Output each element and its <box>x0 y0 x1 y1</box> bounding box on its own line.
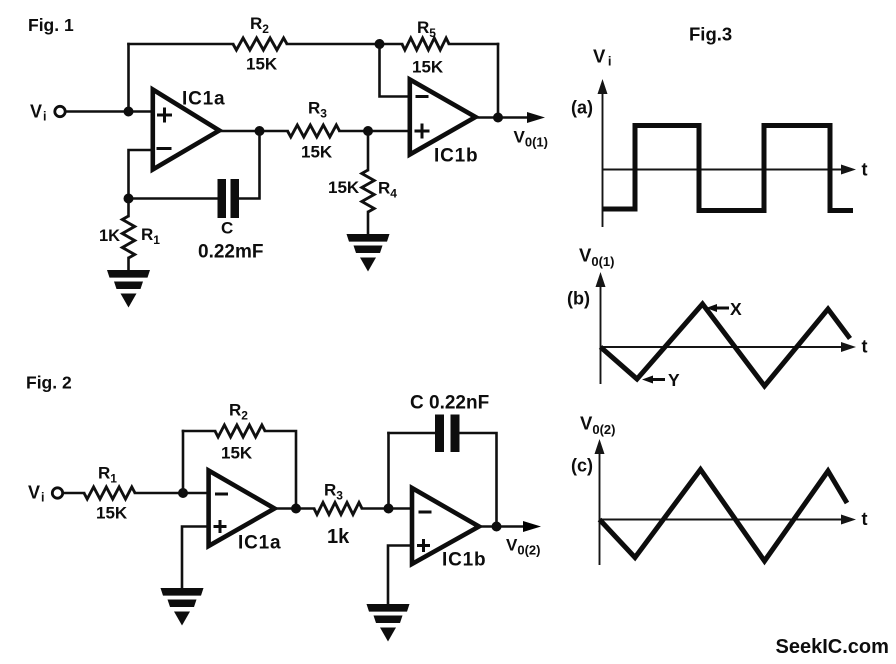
minus mark IC1b fig2 <box>419 511 432 514</box>
op-amp IC1a fig1 <box>153 90 220 170</box>
wire capacitor to output node fig2 <box>460 433 497 527</box>
wire R3 to IC1b inverting input fig2 <box>362 507 412 510</box>
svg-text:Y: Y <box>668 370 680 390</box>
node D junction <box>363 126 373 136</box>
svg-text:R3: R3 <box>324 481 343 503</box>
wire node A up to top rail <box>127 44 130 112</box>
plus mark IC1a fig2 <box>214 520 227 533</box>
wire corner down to output node fig1 <box>497 44 500 118</box>
wire R1 to ground <box>127 258 130 271</box>
ground below R4 <box>347 234 390 272</box>
wire IC1a output to R3 <box>218 130 288 133</box>
graph b axis vertical <box>600 285 602 384</box>
svg-text:R1: R1 <box>98 464 117 486</box>
wire node E to capacitor C <box>129 197 218 200</box>
wire rail to R2 fig2 <box>183 430 215 433</box>
minus mark IC1a fig1 <box>157 147 172 150</box>
node F junction fig2 <box>178 488 188 498</box>
svg-text:V0(2): V0(2) <box>580 413 615 438</box>
svg-text:Vi: Vi <box>593 46 611 69</box>
svg-text:15K: 15K <box>328 178 360 197</box>
wire IC1b noninverting input to ground fig2 <box>388 546 412 605</box>
wire R2 to corner down to output node fig2 <box>265 431 296 509</box>
svg-text:R5: R5 <box>417 18 436 40</box>
resistor R1 fig2 <box>84 487 135 499</box>
svg-text:IC1a: IC1a <box>238 533 281 554</box>
node E junction <box>124 194 134 204</box>
waveform triangle V0(1) <box>601 304 851 386</box>
node G junction IC1a output fig2 <box>291 504 301 514</box>
wire R4 to ground <box>367 212 370 235</box>
node output junction fig2 <box>492 522 502 532</box>
node B junction <box>375 39 385 49</box>
resistor R3 fig1 <box>288 125 340 137</box>
plus mark IC1a fig1 <box>157 108 172 123</box>
wire top rail to R2 <box>129 43 234 46</box>
svg-text:Vi: Vi <box>30 102 47 124</box>
ground below IC1b fig2 <box>367 604 410 642</box>
svg-text:Fig. 2: Fig. 2 <box>26 373 72 393</box>
node Vi input terminal fig2 <box>52 488 62 498</box>
arrow output V0(2) <box>523 521 541 532</box>
minus mark IC1a fig2 <box>215 493 228 496</box>
wire R1 to IC1a inverting input fig2 <box>135 492 209 495</box>
resistor R3 fig2 <box>314 503 362 515</box>
svg-text:t: t <box>862 509 868 529</box>
resistor R5 <box>402 38 449 50</box>
graph c axis vertical <box>599 452 601 565</box>
wire node F up to R2 rail fig2 <box>182 431 185 493</box>
node output junction fig1 <box>493 113 503 123</box>
svg-text:15K: 15K <box>246 55 278 74</box>
resistor R4 vertical <box>362 170 374 212</box>
wire IC1b output to arrow fig2 <box>479 525 524 528</box>
graph a axis vertical <box>602 92 604 227</box>
svg-text:R4: R4 <box>378 179 397 201</box>
capacitor C fig1 <box>218 179 227 218</box>
node A junction <box>124 107 134 117</box>
svg-text:Fig. 1: Fig. 1 <box>28 15 74 35</box>
svg-text:V0(1): V0(1) <box>579 245 614 270</box>
wire Vi to R1 fig2 <box>63 492 84 495</box>
capacitor C 0.22nF fig2 <box>435 415 444 453</box>
svg-text:t: t <box>862 337 868 357</box>
svg-text:Vi: Vi <box>28 483 45 505</box>
svg-text:V0(2): V0(2) <box>506 536 540 558</box>
svg-text:SeekIC.com: SeekIC.com <box>776 636 889 658</box>
wire IC1a noninverting input to ground fig2 <box>182 527 209 589</box>
wire node D down to R4 <box>367 131 370 170</box>
wire R5 to corner <box>449 43 498 46</box>
arrow Y pointer <box>650 378 665 381</box>
ground below R1 <box>107 270 150 308</box>
wire node E down to R1 <box>127 199 130 217</box>
svg-text:IC1a: IC1a <box>182 89 225 110</box>
node H junction fig2 <box>384 504 394 514</box>
minus mark IC1b fig1 <box>416 95 429 98</box>
svg-text:15K: 15K <box>412 58 444 77</box>
op-amp IC1b fig2 <box>412 488 479 564</box>
svg-text:R1: R1 <box>141 225 160 247</box>
node C junction IC1a output <box>255 126 265 136</box>
svg-text:IC1b: IC1b <box>434 146 478 167</box>
svg-text:R2: R2 <box>229 401 248 423</box>
wire IC1a inverting input loop to node E <box>129 150 153 199</box>
svg-text:t: t <box>862 160 868 180</box>
svg-text:0.22mF: 0.22mF <box>198 242 263 263</box>
resistor R2 fig1 <box>233 38 287 50</box>
svg-text:Fig.3: Fig.3 <box>689 24 732 45</box>
svg-text:(c): (c) <box>571 456 593 476</box>
graph c axis horizontal <box>600 519 846 521</box>
svg-text:(b): (b) <box>567 289 590 309</box>
op-amp IC1b fig1 <box>410 80 476 155</box>
wire R3 to IC1b noninverting input <box>340 130 410 133</box>
svg-text:1K: 1K <box>99 227 120 245</box>
svg-text:15K: 15K <box>96 504 128 523</box>
resistor R2 fig2 <box>215 425 265 437</box>
svg-text:1k: 1k <box>327 526 350 548</box>
arrow output V0(1) <box>527 112 545 123</box>
graph a axis horizontal <box>603 169 846 171</box>
wire rail to capacitor fig2 <box>389 432 436 435</box>
svg-text:R3: R3 <box>308 99 327 121</box>
wire capacitor to output column <box>239 131 260 199</box>
svg-text:15K: 15K <box>221 444 253 463</box>
plus mark IC1b fig2 <box>417 539 430 552</box>
op-amp IC1a fig2 <box>209 471 275 547</box>
node Vi input terminal fig1 <box>55 106 65 116</box>
svg-text:X: X <box>730 299 742 319</box>
svg-text:R2: R2 <box>250 14 269 36</box>
svg-text:(a): (a) <box>571 98 593 118</box>
svg-text:C: C <box>221 219 233 238</box>
resistor R1 fig1 vertical <box>122 216 134 258</box>
svg-text:IC1b: IC1b <box>442 550 486 571</box>
wire R2 to node B <box>287 43 402 46</box>
svg-text:V0(1): V0(1) <box>514 128 548 150</box>
waveform square wave Vi <box>603 126 854 211</box>
wire Vi to node A <box>66 110 153 113</box>
svg-text:15K: 15K <box>301 143 333 162</box>
ground below IC1a fig2 <box>161 588 204 626</box>
wire node B down to IC1b inverting input <box>380 44 410 97</box>
wire node H up to capacitor rail fig2 <box>387 433 390 509</box>
wire IC1a output to R3 fig2 <box>273 507 314 510</box>
arrow X pointer <box>714 307 729 310</box>
plus mark IC1b fig1 <box>415 124 430 139</box>
wire IC1b output to arrow <box>476 116 531 119</box>
graph b axis horizontal <box>601 346 846 348</box>
svg-text:C 0.22nF: C 0.22nF <box>410 393 489 414</box>
waveform triangle V0(2) <box>600 470 848 562</box>
